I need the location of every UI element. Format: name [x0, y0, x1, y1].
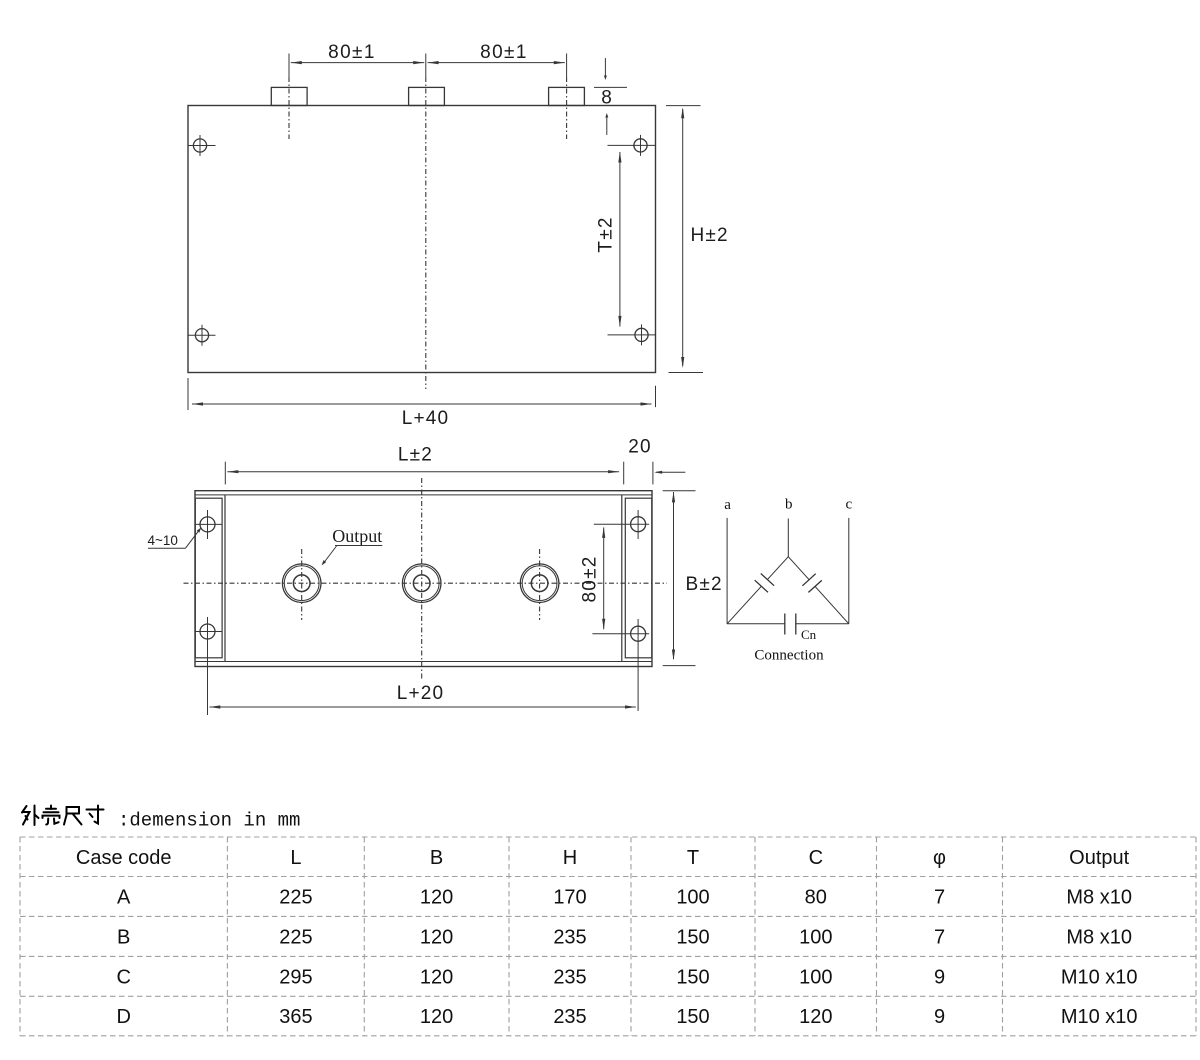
dimension B±2 line with arrows — [672, 491, 675, 660]
front view: terminal 1 block — [271, 87, 307, 105]
svg-text:150: 150 — [676, 926, 709, 948]
top view: lower-right flange hole — [631, 619, 646, 711]
svg-text:120: 120 — [420, 1006, 453, 1028]
svg-text:225: 225 — [279, 887, 312, 909]
dimension L+40 extension lines — [188, 378, 656, 410]
top view: upper-right flange hole — [631, 510, 646, 539]
dimension L+40 line with arrows — [192, 402, 652, 405]
svg-text:100: 100 — [799, 926, 832, 948]
connection diagram: lead b — [787, 519, 789, 557]
top view: right mounting flange — [622, 495, 652, 662]
front view: bottom-left mounting hole — [188, 325, 216, 346]
svg-text:b: b — [785, 496, 793, 512]
svg-text:B: B — [430, 847, 443, 869]
svg-text:H: H — [563, 847, 577, 869]
svg-text:B: B — [117, 926, 130, 948]
svg-text:C: C — [809, 847, 823, 869]
svg-text:8: 8 — [601, 88, 612, 109]
svg-text:a: a — [724, 497, 731, 513]
top view: lower-left flange hole — [195, 617, 221, 715]
dimension H±2 bottom tick — [669, 372, 704, 374]
top view: output terminal 3 — [520, 549, 559, 620]
dimension 80±2 top tick — [594, 523, 649, 525]
dimension L+20 label — [397, 683, 445, 704]
table: row A text — [117, 887, 1132, 909]
dimension 8 lower arrow — [605, 113, 608, 135]
dimension H±2 line with arrows — [681, 107, 684, 368]
dimension 20 label — [628, 437, 652, 458]
svg-text:Output: Output — [332, 526, 382, 546]
svg-text:Case code: Case code — [76, 847, 172, 869]
dimension L+40 label — [402, 408, 450, 429]
table: dashed grid — [20, 837, 1196, 1036]
svg-text:c: c — [845, 496, 852, 512]
label 4~10 with leader arrow — [148, 527, 202, 548]
svg-text:150: 150 — [676, 1006, 709, 1028]
svg-text:4~10: 4~10 — [148, 533, 178, 548]
dimension H±2 label — [691, 225, 729, 246]
front view: terminal 3 block — [549, 87, 585, 105]
top view: upper-left flange hole — [195, 510, 221, 539]
svg-text:295: 295 — [279, 966, 312, 988]
top view: output terminal 2 — [402, 564, 441, 603]
svg-text::demension in mm: :demension in mm — [118, 810, 300, 832]
front view: top-right mounting hole — [608, 135, 656, 156]
svg-text:100: 100 — [799, 966, 832, 988]
svg-text:7: 7 — [934, 887, 945, 909]
svg-text:M10 x10: M10 x10 — [1061, 1006, 1138, 1028]
svg-text:Connection: Connection — [754, 648, 824, 664]
dimension 80±1 (terminal 2 to 3) line with arrows — [428, 61, 565, 64]
svg-text:B±2: B±2 — [686, 574, 723, 595]
svg-text:225: 225 — [279, 926, 312, 948]
svg-text:T: T — [687, 847, 699, 869]
front view: bottom-right mounting hole — [608, 324, 656, 345]
svg-text:9: 9 — [934, 1006, 945, 1028]
top view: left mounting flange — [195, 495, 225, 662]
svg-text:A: A — [117, 887, 131, 909]
dimension 80±2 bottom tick — [592, 633, 649, 635]
svg-text:235: 235 — [553, 966, 586, 988]
connection diagram: capacitor between a and b (left delta branch) — [727, 557, 788, 624]
svg-text:80±1: 80±1 — [328, 42, 376, 63]
svg-text:L±2: L±2 — [398, 445, 433, 466]
svg-text:M8 x10: M8 x10 — [1066, 926, 1132, 948]
dimension T±2 label (rotated) — [596, 216, 617, 252]
dimension 80±1 (terminal 2 to 3) label — [480, 42, 528, 63]
dimension 20 arrow — [654, 471, 685, 474]
front view: terminal 2 centerline (main vertical axis) — [425, 54, 427, 390]
dimension L±2 extension lines — [225, 462, 623, 485]
svg-text:170: 170 — [553, 887, 586, 909]
dimension 80±2 label (rotated) — [580, 556, 601, 603]
connection diagram: lead a — [726, 518, 728, 624]
connection diagram: capacitor Cn (bottom branch) — [727, 614, 849, 635]
dimension L±2 line with arrows — [227, 470, 619, 473]
dimension L+20 extension lines — [0, 0, 1, 1]
dimension B±2 label — [686, 574, 723, 595]
top view: case outline — [195, 491, 652, 667]
dimension B±2 bottom tick — [663, 665, 696, 667]
dimension 8 label — [601, 88, 612, 109]
svg-text:M8 x10: M8 x10 — [1066, 887, 1132, 909]
svg-text:L+40: L+40 — [402, 408, 450, 429]
connection diagram: label Cn — [801, 627, 817, 642]
dimension 8 reference tick line — [594, 86, 627, 88]
svg-text:H±2: H±2 — [691, 225, 729, 246]
front view: top-left mounting hole — [188, 135, 216, 156]
svg-text:235: 235 — [553, 926, 586, 948]
dimension 80±1 (terminal 1 to 2) label — [328, 42, 376, 63]
svg-text:120: 120 — [420, 887, 453, 909]
svg-text:20: 20 — [628, 437, 652, 458]
svg-text:150: 150 — [676, 966, 709, 988]
svg-text:120: 120 — [420, 926, 453, 948]
front view: case body outline — [188, 106, 656, 373]
dimension L+20 line with arrows — [209, 705, 636, 708]
top view: lid edge lines — [195, 495, 652, 662]
table: row D text — [116, 1006, 1137, 1028]
dimension 8 (terminal height) upper arrow — [604, 58, 607, 80]
svg-text:80±2: 80±2 — [580, 556, 601, 603]
svg-text:Output: Output — [1069, 847, 1129, 869]
svg-text:D: D — [116, 1006, 130, 1028]
front view: terminal 3 centerline — [566, 54, 568, 140]
svg-text:120: 120 — [420, 966, 453, 988]
dimension 20 extension line — [652, 462, 654, 485]
front view: terminal 1 centerline — [288, 54, 290, 140]
connection diagram: caption Connection — [754, 648, 824, 664]
dimension 80±1 (terminal 1 to 2) line with arrows — [291, 61, 424, 64]
svg-text:9: 9 — [934, 966, 945, 988]
svg-text:235: 235 — [553, 1006, 586, 1028]
svg-text:100: 100 — [676, 887, 709, 909]
dimension B±2 top tick — [663, 490, 696, 492]
svg-text:C: C — [116, 966, 130, 988]
svg-text:80: 80 — [805, 887, 827, 909]
connection diagram: phase label b — [785, 496, 793, 512]
connection diagram: phase label c — [845, 496, 852, 512]
svg-text:M10 x10: M10 x10 — [1061, 966, 1138, 988]
table: row C text — [116, 966, 1137, 988]
top view: output terminal 1 — [282, 549, 321, 620]
label Output with leader arrow — [322, 526, 383, 565]
table: header text — [76, 847, 1130, 869]
table: row B text — [117, 926, 1132, 948]
heading: Chinese characters 外壳尺寸 (drawn strokes) — [22, 806, 104, 826]
heading: latin text — [118, 810, 300, 832]
dimension T±2 line with arrows — [618, 152, 621, 327]
dimension 80±2 line with arrows — [602, 527, 605, 630]
connection diagram: capacitor between b and c (right delta branch) — [788, 557, 849, 624]
svg-text:365: 365 — [279, 1006, 312, 1028]
top view: vertical centerline — [421, 478, 423, 681]
connection diagram: lead c — [848, 518, 850, 624]
dimension L±2 label — [398, 445, 433, 466]
svg-text:L: L — [290, 847, 301, 869]
svg-text:L+20: L+20 — [397, 683, 445, 704]
svg-text:φ: φ — [933, 847, 946, 869]
top view: horizontal centerline — [184, 582, 668, 584]
dimension H±2 top tick — [666, 105, 701, 107]
svg-text:T±2: T±2 — [596, 216, 617, 252]
svg-text:80±1: 80±1 — [480, 42, 528, 63]
connection diagram: phase label a — [724, 497, 731, 513]
svg-text:120: 120 — [799, 1006, 832, 1028]
front view: terminal 2 block — [409, 87, 445, 105]
svg-text:Cn: Cn — [801, 627, 817, 642]
svg-text:7: 7 — [934, 926, 945, 948]
